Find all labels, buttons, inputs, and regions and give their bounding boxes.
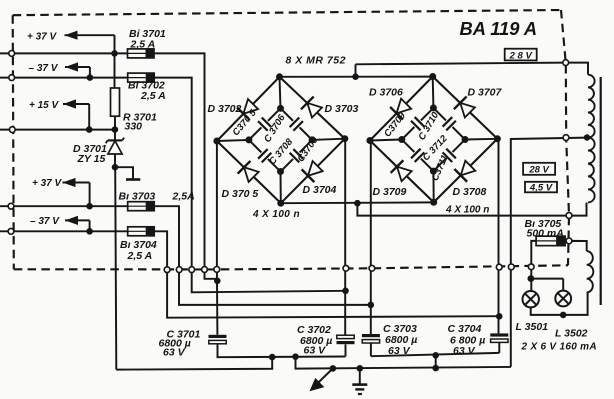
svg-text:2,5 A: 2,5 A — [127, 250, 153, 262]
svg-text:2,5A: 2,5A — [172, 191, 195, 203]
svg-text:63 V: 63 V — [163, 347, 186, 359]
svg-text:D 370 5: D 370 5 — [222, 188, 259, 200]
svg-text:330: 330 — [125, 120, 143, 132]
svg-text:2,5 A: 2,5 A — [140, 90, 166, 102]
svg-text:L 3501: L 3501 — [516, 321, 549, 333]
svg-text:BA 119 A: BA 119 A — [460, 18, 538, 39]
svg-text:2,5 A: 2,5 A — [130, 38, 156, 50]
svg-text:500 mA: 500 mA — [527, 228, 564, 240]
svg-text:63 V: 63 V — [388, 345, 411, 357]
svg-text:+ 15 V: + 15 V — [29, 100, 60, 111]
svg-text:L 3502: L 3502 — [555, 328, 588, 340]
svg-text:– 37 V: – 37 V — [29, 63, 59, 74]
svg-text:D 3706: D 3706 — [369, 86, 403, 98]
svg-text:D 3708: D 3708 — [453, 186, 487, 198]
svg-text:D 3707: D 3707 — [468, 86, 503, 98]
svg-text:Bı 3703: Bı 3703 — [119, 191, 156, 203]
svg-text:D 3702: D 3702 — [208, 103, 242, 115]
svg-text:D 3709: D 3709 — [373, 186, 407, 198]
svg-text:2 X 6 V 160 mA: 2 X 6 V 160 mA — [521, 341, 597, 352]
svg-text:C 3704: C 3704 — [448, 323, 482, 335]
svg-text:4,5 V: 4,5 V — [529, 183, 553, 194]
svg-text:– 37 V: – 37 V — [30, 216, 60, 227]
svg-text:2 8 V: 2 8 V — [509, 50, 533, 61]
svg-text:28 V: 28 V — [528, 164, 549, 175]
svg-text:ZY 15: ZY 15 — [77, 153, 106, 165]
svg-text:4 X 100 n: 4 X 100 n — [252, 209, 300, 220]
svg-text:D 3704: D 3704 — [303, 184, 337, 196]
svg-text:63 V: 63 V — [453, 345, 476, 357]
svg-text:+ 37 V: + 37 V — [27, 31, 58, 42]
svg-text:4 X 100 n: 4 X 100 n — [445, 204, 489, 215]
svg-text:63 V: 63 V — [304, 345, 327, 357]
svg-text:8 X MR 752: 8 X MR 752 — [286, 54, 346, 66]
svg-text:D 3703: D 3703 — [325, 103, 359, 115]
svg-text:+ 37 V: + 37 V — [32, 178, 63, 189]
